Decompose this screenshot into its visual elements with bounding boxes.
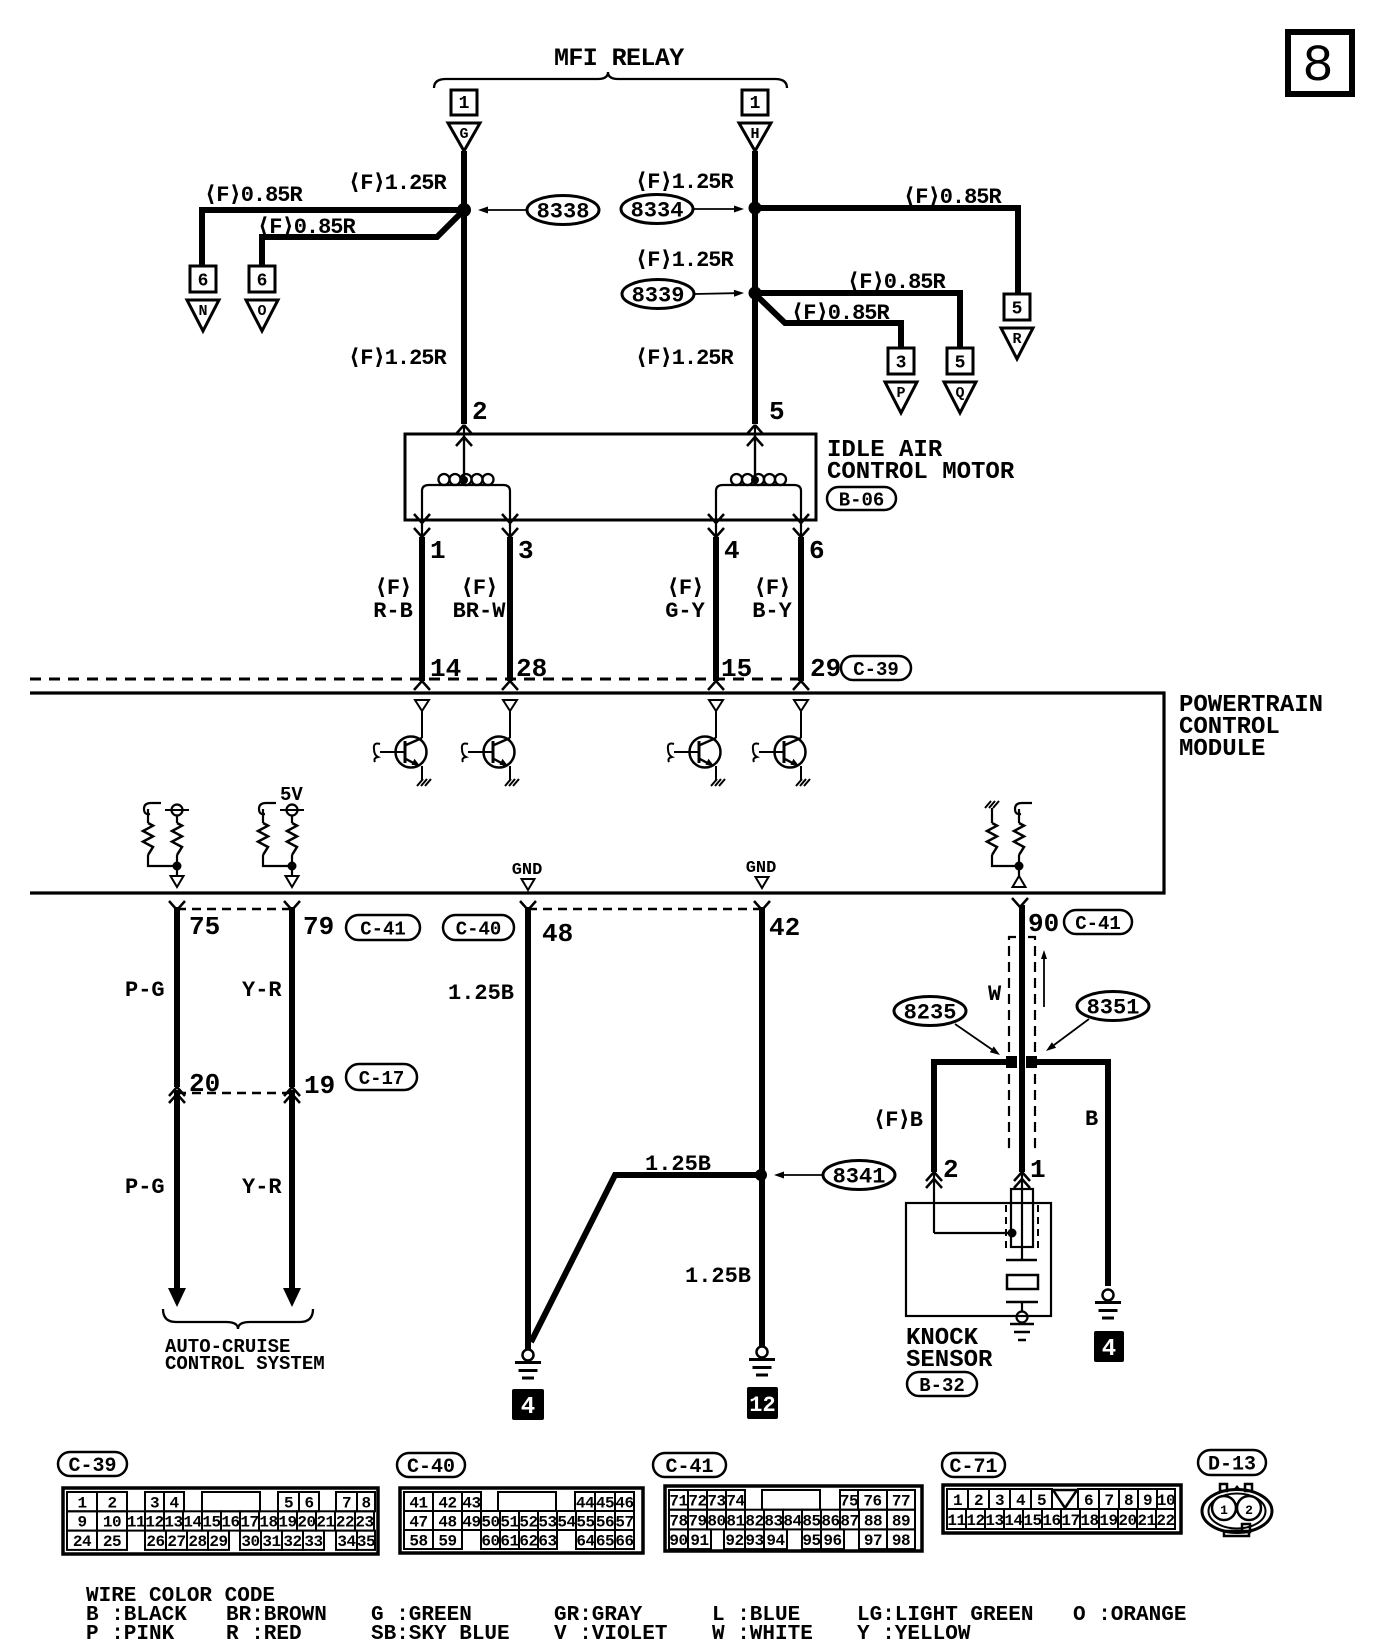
svg-text:⟨F⟩0.85R: ⟨F⟩0.85R xyxy=(903,185,1003,210)
svg-text:42: 42 xyxy=(438,1494,456,1512)
svg-text:MODULE: MODULE xyxy=(1179,736,1265,763)
svg-text:V :VIOLET: V :VIOLET xyxy=(554,1623,667,1646)
wire pin3 xyxy=(507,537,513,681)
svg-text:15: 15 xyxy=(721,654,752,684)
connector label D-13 xyxy=(1198,1450,1266,1475)
connector label C-17 xyxy=(346,1064,417,1090)
svg-text:C-17: C-17 xyxy=(359,1068,405,1090)
svg-text:CONTROL SYSTEM: CONTROL SYSTEM xyxy=(165,1353,325,1375)
pin 90 fork xyxy=(1012,898,1020,907)
terminal 6/O xyxy=(249,266,275,292)
connector label C-41 left xyxy=(346,915,420,940)
svg-text:87: 87 xyxy=(840,1512,858,1530)
svg-text:18: 18 xyxy=(259,1514,277,1532)
C-17 fork pin20 xyxy=(169,1087,177,1096)
svg-text:97: 97 xyxy=(864,1532,882,1550)
connector label C-41 right xyxy=(1064,910,1132,934)
callout 8235 xyxy=(894,997,966,1026)
svg-text:SENSOR: SENSOR xyxy=(906,1347,993,1374)
knock fork pin2 xyxy=(926,1172,934,1181)
svg-text:57: 57 xyxy=(615,1513,633,1531)
wire pin42 1.25B xyxy=(759,907,765,1346)
svg-text:W: W xyxy=(988,982,1002,1007)
svg-text:44: 44 xyxy=(576,1494,595,1512)
ground ref 4 right xyxy=(1094,1331,1124,1362)
svg-text:85: 85 xyxy=(802,1512,820,1530)
svg-text:13: 13 xyxy=(985,1512,1003,1530)
svg-text:5V: 5V xyxy=(280,784,303,806)
coil left xyxy=(422,485,510,520)
terminal 1/G (MFI relay) xyxy=(451,90,477,115)
svg-text:71: 71 xyxy=(669,1493,687,1511)
svg-text:7: 7 xyxy=(1104,1492,1113,1510)
connector pinout C-71 xyxy=(943,1485,1181,1533)
ground wire B xyxy=(1103,1290,1114,1301)
svg-text:5: 5 xyxy=(769,397,785,427)
driver transistor Q4 xyxy=(794,700,808,711)
wire (F)0.85R to terminal O xyxy=(262,211,463,266)
svg-text:C-41: C-41 xyxy=(665,1456,713,1479)
svg-text:D-13: D-13 xyxy=(1208,1454,1256,1477)
driver transistor Q1 xyxy=(415,700,429,711)
terminal 6/N xyxy=(190,266,216,292)
svg-text:G-Y: G-Y xyxy=(665,599,705,624)
sensor terminal rect xyxy=(1011,1189,1033,1247)
svg-text:14: 14 xyxy=(183,1514,202,1532)
svg-text:11: 11 xyxy=(947,1512,965,1530)
svg-text:G: G xyxy=(459,126,468,143)
svg-text:GND: GND xyxy=(512,861,543,880)
svg-text:22: 22 xyxy=(336,1514,354,1532)
connector pinout C-39 xyxy=(63,1488,378,1554)
svg-text:Y :YELLOW: Y :YELLOW xyxy=(857,1623,971,1646)
svg-text:5: 5 xyxy=(955,354,966,374)
svg-text:H: H xyxy=(750,126,759,143)
connector label C-39 xyxy=(58,1452,127,1476)
connector fork pin2 entry xyxy=(456,425,464,434)
svg-text:66: 66 xyxy=(615,1532,633,1550)
terminal 5/R xyxy=(1004,294,1030,320)
svg-text:MFI RELAY: MFI RELAY xyxy=(554,44,684,73)
ground ref 4 middle xyxy=(512,1389,544,1420)
page number 8 xyxy=(1288,32,1352,94)
svg-text:8: 8 xyxy=(1124,1492,1133,1510)
connector fork pin1 at C-39 xyxy=(414,681,422,690)
svg-text:75: 75 xyxy=(189,912,220,942)
svg-text:46: 46 xyxy=(615,1494,633,1512)
knock sensor inner lead xyxy=(934,1232,1008,1234)
wire pin4 xyxy=(713,537,719,681)
svg-text:C-40: C-40 xyxy=(456,918,502,940)
svg-text:6: 6 xyxy=(257,272,268,292)
svg-text:Y-R: Y-R xyxy=(242,978,282,1003)
callout 8338 xyxy=(527,196,599,225)
svg-text:45: 45 xyxy=(596,1494,614,1512)
wire (F)0.85R to terminal N xyxy=(202,210,461,266)
svg-text:58: 58 xyxy=(409,1532,427,1550)
jumper dashed 20-19 xyxy=(177,1092,292,1095)
svg-text:21: 21 xyxy=(316,1514,334,1532)
svg-text:29: 29 xyxy=(810,654,841,684)
svg-text:1.25B: 1.25B xyxy=(645,1152,711,1177)
connector line C-39 dashed xyxy=(30,678,802,681)
svg-text:P :PINK: P :PINK xyxy=(86,1623,175,1646)
wire pin90 W xyxy=(1019,905,1025,1172)
resistor pair pins 75 xyxy=(144,803,161,814)
svg-text:79: 79 xyxy=(303,912,334,942)
svg-text:1: 1 xyxy=(953,1492,962,1510)
svg-text:⟨F⟩0.85R: ⟨F⟩0.85R xyxy=(204,183,304,208)
svg-text:76: 76 xyxy=(863,1493,881,1511)
callout 8339 xyxy=(622,280,694,309)
svg-text:75: 75 xyxy=(840,1493,858,1511)
connector label B-32 xyxy=(907,1372,977,1396)
svg-text:8235: 8235 xyxy=(904,1001,957,1026)
shield junction square left xyxy=(1006,1056,1017,1068)
svg-text:20: 20 xyxy=(1118,1512,1136,1530)
svg-text:⟨F⟩B: ⟨F⟩B xyxy=(873,1108,923,1133)
svg-text:4: 4 xyxy=(724,536,740,566)
svg-text:8: 8 xyxy=(361,1494,370,1512)
sensor plate top xyxy=(1006,1259,1037,1262)
svg-text:N: N xyxy=(198,303,207,320)
shield drain wire left xyxy=(934,1062,1007,1172)
svg-text:3: 3 xyxy=(896,354,907,374)
junction node H1 xyxy=(749,202,762,215)
svg-text:R-B: R-B xyxy=(373,599,413,624)
svg-text:86: 86 xyxy=(821,1512,839,1530)
svg-text:16: 16 xyxy=(221,1514,239,1532)
svg-text:62: 62 xyxy=(519,1532,537,1550)
svg-text:C-41: C-41 xyxy=(360,918,406,940)
svg-text:6: 6 xyxy=(198,272,209,292)
svg-text:2: 2 xyxy=(974,1492,983,1510)
svg-text:B-Y: B-Y xyxy=(752,599,792,624)
wire pin79 Y-R upper xyxy=(289,907,295,1087)
svg-text:8: 8 xyxy=(1302,37,1333,96)
svg-text:3: 3 xyxy=(518,536,534,566)
pin 75 fork xyxy=(169,901,177,910)
svg-text:80: 80 xyxy=(707,1512,725,1530)
knock fork pin1 xyxy=(1014,1172,1022,1181)
svg-text:93: 93 xyxy=(745,1532,763,1550)
svg-text:21: 21 xyxy=(1137,1512,1155,1530)
svg-text:20: 20 xyxy=(297,1514,315,1532)
svg-text:63: 63 xyxy=(538,1532,556,1550)
svg-text:34: 34 xyxy=(337,1533,356,1551)
svg-text:C-40: C-40 xyxy=(407,1456,455,1479)
wire pin75 P-G lower xyxy=(174,1090,180,1290)
svg-text:12: 12 xyxy=(145,1514,163,1532)
svg-text:53: 53 xyxy=(538,1513,556,1531)
svg-text:19: 19 xyxy=(304,1071,335,1101)
svg-text:48: 48 xyxy=(438,1513,456,1531)
sensor element rect xyxy=(1007,1275,1038,1289)
svg-text:4: 4 xyxy=(1016,1492,1026,1510)
svg-text:23: 23 xyxy=(355,1514,373,1532)
svg-text:91: 91 xyxy=(690,1532,708,1550)
connector fork pin3 exit xyxy=(502,514,510,523)
svg-text:C-39: C-39 xyxy=(853,659,899,681)
svg-text:7: 7 xyxy=(342,1494,351,1512)
coil right xyxy=(716,485,801,520)
svg-text:P-G: P-G xyxy=(125,978,165,1003)
svg-text:9: 9 xyxy=(77,1514,86,1532)
svg-text:1.25B: 1.25B xyxy=(685,1264,751,1289)
svg-text:89: 89 xyxy=(892,1512,910,1530)
svg-text:83: 83 xyxy=(764,1512,782,1530)
connector fork pin4 at C-39 xyxy=(708,681,716,690)
svg-text:29: 29 xyxy=(209,1533,227,1551)
wire pin75 P-G upper xyxy=(174,907,180,1087)
svg-text:18: 18 xyxy=(1080,1512,1098,1530)
svg-text:73: 73 xyxy=(707,1493,725,1511)
svg-text:98: 98 xyxy=(892,1532,910,1550)
svg-text:4: 4 xyxy=(521,1394,535,1421)
svg-text:42: 42 xyxy=(769,913,800,943)
svg-text:1: 1 xyxy=(459,94,470,114)
wire pin79 Y-R lower xyxy=(289,1090,295,1290)
svg-text:20: 20 xyxy=(189,1069,220,1099)
svg-text:⟨F⟩1.25R: ⟨F⟩1.25R xyxy=(348,171,448,196)
sensor shield dashes inner xyxy=(1006,1205,1012,1247)
svg-text:27: 27 xyxy=(167,1533,185,1551)
svg-text:8338: 8338 xyxy=(537,200,590,225)
svg-text:1.25B: 1.25B xyxy=(448,981,514,1006)
svg-text:SB:SKY BLUE: SB:SKY BLUE xyxy=(371,1623,510,1646)
pin 48 fork xyxy=(520,901,528,910)
jumper dashed 48-42 xyxy=(528,908,762,911)
resistor pair pin 90 xyxy=(985,801,991,808)
connector fork pin5 entry xyxy=(747,425,755,434)
pin 42 fork xyxy=(754,901,762,910)
connector fork pin6 exit xyxy=(793,514,801,523)
svg-text:41: 41 xyxy=(409,1494,427,1512)
svg-text:12: 12 xyxy=(749,1393,775,1418)
svg-text:⟨F⟩1.25R: ⟨F⟩1.25R xyxy=(348,346,448,371)
svg-text:⟨F⟩: ⟨F⟩ xyxy=(461,576,498,601)
svg-text:22: 22 xyxy=(1156,1512,1174,1530)
svg-text:3: 3 xyxy=(995,1492,1004,1510)
svg-text:BR-W: BR-W xyxy=(453,599,507,624)
svg-text:8341: 8341 xyxy=(833,1165,886,1190)
callout 8351 xyxy=(1077,992,1149,1021)
svg-text:C-41: C-41 xyxy=(1075,913,1121,935)
svg-text:19: 19 xyxy=(1099,1512,1117,1530)
svg-text:56: 56 xyxy=(596,1513,614,1531)
svg-text:50: 50 xyxy=(481,1513,499,1531)
svg-text:6: 6 xyxy=(304,1494,313,1512)
svg-text:2: 2 xyxy=(472,397,488,427)
resistor pair 5V xyxy=(259,803,276,814)
svg-text:⟨F⟩1.25R: ⟨F⟩1.25R xyxy=(635,248,735,273)
connector fork pin3 at C-39 xyxy=(502,681,510,690)
connector pinout C-41 xyxy=(665,1486,922,1551)
svg-text:92: 92 xyxy=(725,1532,743,1550)
svg-text:17: 17 xyxy=(240,1514,258,1532)
svg-text:1: 1 xyxy=(1030,1155,1046,1185)
svg-text:31: 31 xyxy=(262,1533,280,1551)
svg-text:11: 11 xyxy=(127,1514,145,1532)
svg-text:P-G: P-G xyxy=(125,1175,165,1200)
svg-text:8351: 8351 xyxy=(1087,996,1140,1021)
powertrain control module box xyxy=(30,693,1164,893)
svg-text:78: 78 xyxy=(669,1512,687,1530)
svg-text:⟨F⟩0.85R: ⟨F⟩0.85R xyxy=(257,215,357,240)
terminal 5/Q xyxy=(947,348,973,374)
svg-text:59: 59 xyxy=(438,1532,456,1550)
svg-text:6: 6 xyxy=(1084,1492,1093,1510)
svg-text:B-32: B-32 xyxy=(919,1375,965,1397)
idle air control motor box xyxy=(405,434,816,520)
svg-text:8334: 8334 xyxy=(631,199,684,224)
wire ground diagonal 1.25B xyxy=(531,1175,758,1342)
brace auto-cruise xyxy=(163,1309,313,1329)
wire (F)0.85R to terminal R xyxy=(758,208,1018,294)
svg-text:⟨F⟩: ⟨F⟩ xyxy=(375,576,412,601)
svg-text:79: 79 xyxy=(688,1512,706,1530)
jumper dashed 75-79 xyxy=(177,908,292,911)
shield dashed right xyxy=(1028,937,1035,1147)
svg-text:60: 60 xyxy=(481,1532,499,1550)
wire pin1 xyxy=(419,537,425,681)
sensor plate bottom xyxy=(1006,1301,1038,1304)
driver transistor Q2 xyxy=(503,700,517,711)
svg-text:24: 24 xyxy=(73,1533,92,1551)
junction node G xyxy=(457,203,471,217)
shield drain wire right xyxy=(1036,1062,1108,1286)
svg-text:48: 48 xyxy=(542,919,573,949)
svg-text:1: 1 xyxy=(750,94,761,114)
svg-text:95: 95 xyxy=(802,1532,820,1550)
svg-text:90: 90 xyxy=(669,1532,687,1550)
svg-text:⟨F⟩: ⟨F⟩ xyxy=(754,576,791,601)
svg-text:84: 84 xyxy=(783,1512,802,1530)
wire (F)0.85R to terminal P xyxy=(757,296,901,348)
connector label C-40 xyxy=(397,1453,465,1477)
wire H vertical (F)1.25R xyxy=(752,151,758,424)
svg-text:25: 25 xyxy=(103,1533,121,1551)
svg-text:54: 54 xyxy=(557,1513,576,1531)
svg-text:P: P xyxy=(896,385,905,402)
connector fork pin1 exit xyxy=(414,514,422,523)
svg-text:28: 28 xyxy=(188,1533,206,1551)
svg-text:43: 43 xyxy=(462,1494,480,1512)
callout 8334 xyxy=(621,195,693,224)
junction node H2 xyxy=(749,287,762,300)
svg-text:C-39: C-39 xyxy=(68,1455,116,1478)
svg-text:5: 5 xyxy=(284,1494,293,1512)
svg-text:W :WHITE: W :WHITE xyxy=(712,1623,813,1646)
svg-text:15: 15 xyxy=(202,1514,220,1532)
connector pinout D-13 xyxy=(1202,1490,1272,1533)
junction node 8341 xyxy=(755,1169,767,1181)
svg-text:R :RED: R :RED xyxy=(226,1623,302,1646)
svg-text:6: 6 xyxy=(809,536,825,566)
svg-text:9: 9 xyxy=(1143,1492,1152,1510)
svg-text:10: 10 xyxy=(1157,1492,1175,1510)
svg-text:4: 4 xyxy=(169,1494,179,1512)
svg-text:96: 96 xyxy=(823,1532,841,1550)
svg-text:⟨F⟩1.25R: ⟨F⟩1.25R xyxy=(635,346,735,371)
svg-text:C-71: C-71 xyxy=(949,1456,997,1479)
svg-text:5: 5 xyxy=(1037,1492,1046,1510)
pin 79 fork xyxy=(284,901,292,910)
connector label C-40 xyxy=(443,915,514,940)
svg-text:Q: Q xyxy=(955,385,964,402)
svg-text:⟨F⟩0.85R: ⟨F⟩0.85R xyxy=(847,270,947,295)
svg-text:Y-R: Y-R xyxy=(242,1175,282,1200)
connector fork pin4 exit xyxy=(708,514,716,523)
svg-text:B: B xyxy=(1085,1107,1098,1132)
connector label C-39 inline xyxy=(841,656,911,680)
ground ref 12 xyxy=(747,1387,778,1419)
connector label C-41 xyxy=(653,1453,726,1477)
svg-text:1: 1 xyxy=(1220,1503,1228,1518)
svg-text:94: 94 xyxy=(766,1532,785,1550)
svg-text:35: 35 xyxy=(357,1533,375,1551)
svg-text:26: 26 xyxy=(146,1533,164,1551)
connector fork pin6 at C-39 xyxy=(793,681,801,690)
svg-text:61: 61 xyxy=(500,1532,518,1550)
shield dashed left xyxy=(1009,937,1016,1147)
sensor ground xyxy=(1017,1312,1028,1323)
svg-text:8339: 8339 xyxy=(632,284,685,309)
svg-text:1: 1 xyxy=(430,536,446,566)
signal direction arrow xyxy=(1043,959,1045,1007)
svg-text:51: 51 xyxy=(500,1513,518,1531)
svg-text:4: 4 xyxy=(1102,1336,1116,1363)
svg-text:74: 74 xyxy=(726,1493,745,1511)
svg-text:15: 15 xyxy=(1023,1512,1041,1530)
knock sensor box xyxy=(906,1203,1051,1316)
svg-text:O :ORANGE: O :ORANGE xyxy=(1073,1604,1186,1627)
terminal 3/P xyxy=(888,348,914,374)
shield junction square right xyxy=(1026,1056,1037,1068)
svg-text:13: 13 xyxy=(164,1514,182,1532)
svg-text:49: 49 xyxy=(462,1513,480,1531)
svg-text:47: 47 xyxy=(409,1513,427,1531)
connector pinout C-40 xyxy=(400,1488,643,1553)
svg-text:90: 90 xyxy=(1028,909,1059,939)
svg-text:GND: GND xyxy=(746,859,777,878)
svg-text:2: 2 xyxy=(1245,1503,1253,1518)
svg-text:12: 12 xyxy=(966,1512,984,1530)
terminal 1/H (MFI relay) xyxy=(742,90,768,115)
svg-text:2: 2 xyxy=(107,1494,116,1512)
ground pin42 xyxy=(757,1347,768,1358)
svg-text:88: 88 xyxy=(864,1512,882,1530)
svg-text:32: 32 xyxy=(283,1533,301,1551)
driver transistor Q3 xyxy=(709,700,723,711)
svg-text:10: 10 xyxy=(103,1514,121,1532)
svg-text:19: 19 xyxy=(278,1514,296,1532)
connector label B-06 xyxy=(827,487,896,510)
svg-text:B-06: B-06 xyxy=(839,489,885,511)
svg-text:⟨F⟩: ⟨F⟩ xyxy=(667,576,704,601)
svg-text:55: 55 xyxy=(576,1513,594,1531)
svg-text:77: 77 xyxy=(892,1493,910,1511)
svg-text:2: 2 xyxy=(943,1155,959,1185)
svg-text:72: 72 xyxy=(688,1493,706,1511)
svg-text:R: R xyxy=(1012,331,1021,348)
svg-text:30: 30 xyxy=(241,1533,259,1551)
svg-text:33: 33 xyxy=(304,1533,322,1551)
ground pin48 xyxy=(523,1350,534,1361)
svg-text:14: 14 xyxy=(430,654,461,684)
svg-text:16: 16 xyxy=(1042,1512,1060,1530)
svg-text:82: 82 xyxy=(745,1512,763,1530)
